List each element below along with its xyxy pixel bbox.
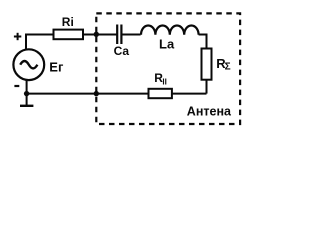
svg-text:II: II [162, 77, 166, 86]
svg-text:Ег: Ег [49, 59, 64, 74]
svg-text:Антена: Антена [187, 105, 232, 119]
svg-text:La: La [159, 36, 175, 51]
svg-text:Са: Са [114, 44, 130, 58]
svg-text:Σ: Σ [225, 62, 231, 73]
svg-text:Ri: Ri [62, 15, 74, 29]
